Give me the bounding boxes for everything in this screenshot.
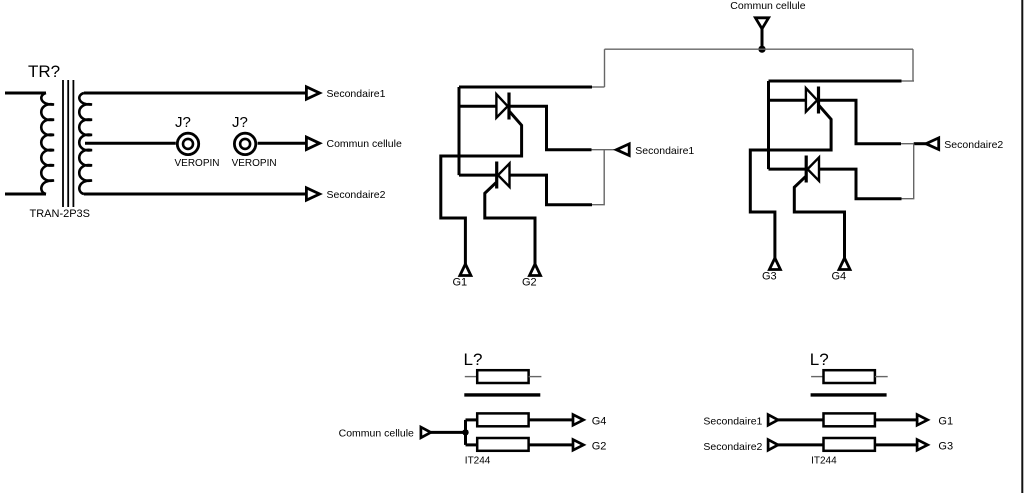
wire junction drop left pair: [592, 150, 604, 205]
svg-text:Secondaire1: Secondaire1: [635, 145, 694, 157]
terminal Commun cellule (transformer): [306, 137, 319, 149]
svg-text:G3: G3: [762, 271, 777, 283]
svg-text:Secondaire2: Secondaire2: [703, 441, 762, 453]
terminal Secondaire1 (transformer): [306, 87, 319, 99]
pulse transformer left primary lead right: [529, 376, 542, 378]
svg-text:IT244: IT244: [811, 455, 837, 466]
wire Commun cellule bus: [605, 48, 914, 50]
wire lower anode link right pair: [819, 169, 902, 199]
thyristor upper left pair: [496, 94, 507, 118]
terminal Commun cellule input: [421, 427, 431, 438]
wire gate lower thyristor right pair to G4: [794, 176, 844, 258]
wire Secondaire1 input to winding A: [778, 418, 824, 421]
window border right: [1021, 0, 1023, 493]
svg-text:G1: G1: [453, 277, 468, 289]
wire winding B to G3: [875, 443, 917, 446]
terminal Secondaire2 input: [768, 440, 778, 451]
wire thin link to Secondaire1 terminal: [592, 149, 617, 151]
svg-text:J?: J?: [232, 114, 248, 131]
terminal G1: [917, 415, 928, 426]
svg-text:Commun cellule: Commun cellule: [339, 428, 414, 440]
wire winding B left stub: [466, 443, 478, 446]
terminal G3: [917, 440, 928, 451]
svg-text:G2: G2: [522, 277, 537, 289]
wire gate upper thyristor right pair to G3: [750, 106, 831, 259]
wire top link left pair: [459, 86, 592, 89]
wire left vertical: [464, 420, 467, 445]
wire J2 to Commun cellule terminal: [258, 142, 307, 145]
svg-text:VEROPIN: VEROPIN: [232, 158, 277, 169]
wire thin link to Secondaire2 terminal: [901, 143, 914, 145]
wire secondary bottom lead to Secondaire2: [84, 193, 306, 196]
terminal Secondaire2 (transformer): [306, 188, 319, 200]
svg-text:L?: L?: [810, 350, 829, 369]
wire center tap: [85, 142, 176, 145]
svg-text:TRAN-2P3S: TRAN-2P3S: [30, 208, 91, 220]
wire winding A to G1: [875, 418, 917, 421]
pulse transformer left primary winding: [477, 370, 528, 383]
terminal G1: [460, 264, 471, 276]
wire left vertical right pair: [767, 81, 770, 169]
svg-text:G3: G3: [938, 440, 953, 452]
wire bus left drop: [604, 49, 606, 87]
transformer TR1 primary winding: [41, 93, 54, 194]
wire anode upper thyristor right pair: [769, 99, 806, 102]
thyristor lower right pair: [808, 157, 820, 180]
pulse transformer right primary winding: [824, 370, 875, 383]
svg-text:J?: J?: [175, 114, 191, 131]
wire cathode upper thyristor left pair: [509, 106, 592, 150]
svg-text:Secondaire1: Secondaire1: [703, 415, 762, 427]
junction dot: [462, 429, 468, 435]
connector J2 VEROPIN pad: [234, 133, 255, 154]
wire cathode lower thyristor left pair: [459, 174, 497, 177]
terminal Secondaire2: [926, 138, 939, 150]
svg-text:G1: G1: [938, 415, 953, 427]
pulse transformer left core: [464, 393, 540, 396]
svg-text:VEROPIN: VEROPIN: [175, 158, 220, 169]
wire Secondaire2 input to winding B: [778, 443, 824, 446]
wire gate upper thyristor left pair to G1: [441, 112, 522, 265]
svg-text:Secondaire2: Secondaire2: [327, 189, 386, 201]
pulse transformer right primary lead left: [811, 376, 823, 378]
pulse transformer right core: [811, 393, 887, 396]
thyristor lower left pair: [498, 163, 510, 186]
svg-text:TR?: TR?: [28, 62, 60, 81]
wire stub to Secondaire2 terminal: [914, 142, 926, 145]
wire primary bottom lead: [5, 193, 46, 196]
wire top link right pair: [769, 80, 902, 83]
junction dot: [758, 46, 765, 53]
connector J1 VEROPIN pad: [177, 133, 198, 154]
pulse transformer left secondary winding B: [477, 438, 528, 451]
svg-text:Secondaire1: Secondaire1: [327, 88, 386, 100]
pulse transformer right secondary winding A: [824, 413, 875, 426]
wire cathode upper thyristor right pair: [819, 100, 902, 144]
pulse transformer left primary lead left: [465, 376, 477, 378]
wire terminal to bus: [761, 29, 764, 49]
svg-text:Commun cellule: Commun cellule: [730, 0, 805, 12]
svg-text:G2: G2: [592, 440, 607, 452]
svg-text:IT244: IT244: [465, 455, 491, 466]
wire bus right drop: [912, 49, 914, 81]
wire secondary top lead to Secondaire1: [84, 92, 306, 95]
terminal G4: [573, 415, 584, 426]
svg-text:Secondaire2: Secondaire2: [944, 139, 1003, 151]
terminal Secondaire1 input: [768, 415, 778, 426]
wire gate lower thyristor left pair to G2: [485, 182, 535, 264]
terminal Secondaire1: [616, 144, 629, 156]
pulse transformer left secondary winding A: [477, 413, 528, 426]
transformer secondary winding: [79, 93, 92, 194]
wire junction drop right pair: [902, 144, 914, 199]
wire lower anode link left pair: [510, 175, 593, 205]
pulse transformer right secondary winding B: [824, 438, 875, 451]
svg-text:L?: L?: [464, 350, 483, 369]
svg-text:Commun cellule: Commun cellule: [327, 138, 402, 150]
thyristor upper right pair: [806, 88, 817, 112]
svg-text:G4: G4: [832, 271, 847, 283]
wire winding A left stub: [466, 418, 478, 421]
wire winding B to G2: [529, 443, 573, 446]
terminal G2: [573, 440, 584, 451]
terminal Commun cellule top: [755, 18, 768, 29]
pulse transformer right primary lead right: [875, 376, 888, 378]
svg-text:G4: G4: [592, 415, 607, 427]
terminal G4: [839, 258, 850, 270]
wire primary top lead: [5, 92, 46, 95]
terminal G2: [530, 264, 541, 276]
wire cathode lower thyristor right pair: [769, 168, 807, 171]
transformer core: [63, 80, 73, 207]
terminal G3: [769, 258, 780, 270]
wire Commun cellule input: [431, 431, 466, 434]
wire anode upper thyristor left pair: [459, 105, 496, 108]
wire winding A to G4: [529, 418, 573, 421]
wire left vertical left pair: [458, 87, 461, 175]
